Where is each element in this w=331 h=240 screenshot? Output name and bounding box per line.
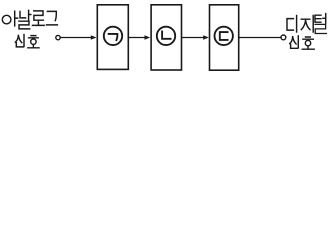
지 [301,19,310,29]
호 [303,37,313,39]
디 [287,19,293,31]
로 [34,11,44,20]
block 3 rectangle (encoding) [210,5,239,70]
input terminal node (left) [56,35,60,39]
circled ㄴ symbol in block 2 [157,27,175,45]
arrowhead into block 2 [145,35,151,40]
label "신호" (signal) line 2 left [15,35,39,48]
그 [47,11,58,25]
wire: block 1 to block 2 [129,37,144,39]
output terminal node (right) [281,35,286,40]
circled ㄱ symbol in block 1 [104,27,122,45]
wire: block 3 to output terminal [239,37,281,39]
arrowhead into block 3 [203,35,209,40]
block 2 rectangle (quantizing) [151,5,181,70]
arrowhead into block 1 [91,35,97,40]
wire: input terminal to block 1 [61,37,91,39]
아 [2,15,11,24]
신 [15,35,21,42]
circled ㄷ symbol in block 3 [215,27,233,45]
호 [29,36,39,38]
털 [315,14,326,24]
label "신호" (signal) line 2 right [290,36,315,49]
신 [290,37,296,44]
label "디지털" (digital) line 1 right [287,14,326,34]
label "아날로그" (analog) line 1 [2,10,57,29]
날 [20,10,31,20]
wire: block 2 to block 3 [182,37,203,39]
block 1 rectangle (sampling) [97,5,128,70]
